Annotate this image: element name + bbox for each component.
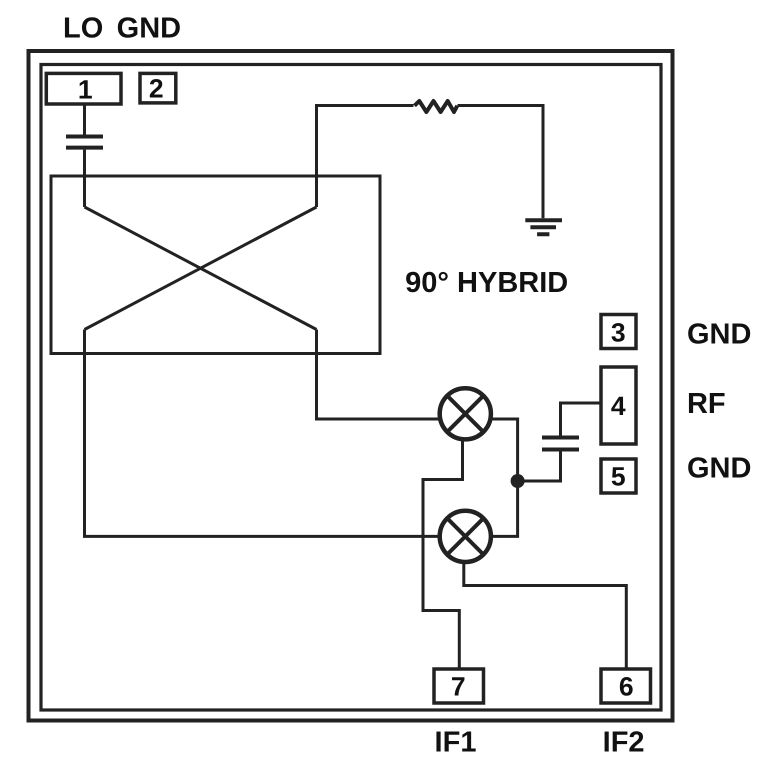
svg-text:GND: GND <box>687 453 751 485</box>
mixer U1 circle <box>440 388 491 439</box>
svg-text:5: 5 <box>611 461 626 491</box>
svg-text:IF1: IF1 <box>435 727 477 759</box>
ground symbol <box>525 220 562 234</box>
resistor R1 zigzag <box>415 101 458 112</box>
svg-text:4: 4 <box>611 391 626 421</box>
90 degree hybrid box <box>51 176 380 354</box>
wire resistor to ground <box>458 106 544 219</box>
outer package border <box>29 51 673 721</box>
wire mixer U2 bottom to pin 6 <box>464 562 627 670</box>
wire node down to mixer U2 right <box>491 481 518 536</box>
node junction dot <box>511 474 525 488</box>
wire node to capacitor C2 <box>518 452 561 482</box>
wire hybrid bottom-right to upper mixer <box>317 330 441 420</box>
capacitor C2 plates <box>542 438 579 450</box>
pin 5 box <box>601 459 636 493</box>
inner package border <box>41 65 661 711</box>
wire hybrid top-right to resistor <box>317 106 414 208</box>
mixer U2 cross <box>447 518 483 554</box>
mixer U1 cross <box>447 396 483 432</box>
capacitor C1 plates <box>66 137 103 148</box>
wire mixer U1 bottom to pin 7 <box>423 439 463 669</box>
wire mixer U1 right to node <box>491 419 518 481</box>
wire capacitor C1 to hybrid <box>83 150 86 207</box>
wire pin1 to capacitor C1 <box>83 104 86 135</box>
svg-text:90° HYBRID: 90° HYBRID <box>405 267 568 299</box>
svg-text:IF2: IF2 <box>603 727 645 759</box>
pin 4 box <box>601 367 636 444</box>
pin 6 box <box>601 669 651 703</box>
svg-text:7: 7 <box>451 672 466 702</box>
pin 7 box <box>434 669 484 703</box>
svg-text:6: 6 <box>619 672 634 702</box>
wire hybrid bottom-left to lower mixer <box>85 330 441 537</box>
svg-text:3: 3 <box>611 317 626 347</box>
pin 1 box <box>46 73 121 104</box>
svg-text:1: 1 <box>78 74 93 104</box>
svg-text:GND: GND <box>117 13 181 45</box>
mixer U2 circle <box>440 511 491 562</box>
pin 2 box <box>140 73 176 103</box>
svg-text:GND: GND <box>687 319 751 351</box>
hybrid crossover diagonal A <box>85 207 317 330</box>
svg-text:RF: RF <box>687 388 726 420</box>
svg-text:LO: LO <box>63 13 103 45</box>
wire capacitor C2 to pin 4 <box>561 403 602 436</box>
hybrid crossover diagonal B <box>85 207 317 330</box>
pin 3 box <box>601 315 636 349</box>
svg-text:2: 2 <box>149 74 164 104</box>
